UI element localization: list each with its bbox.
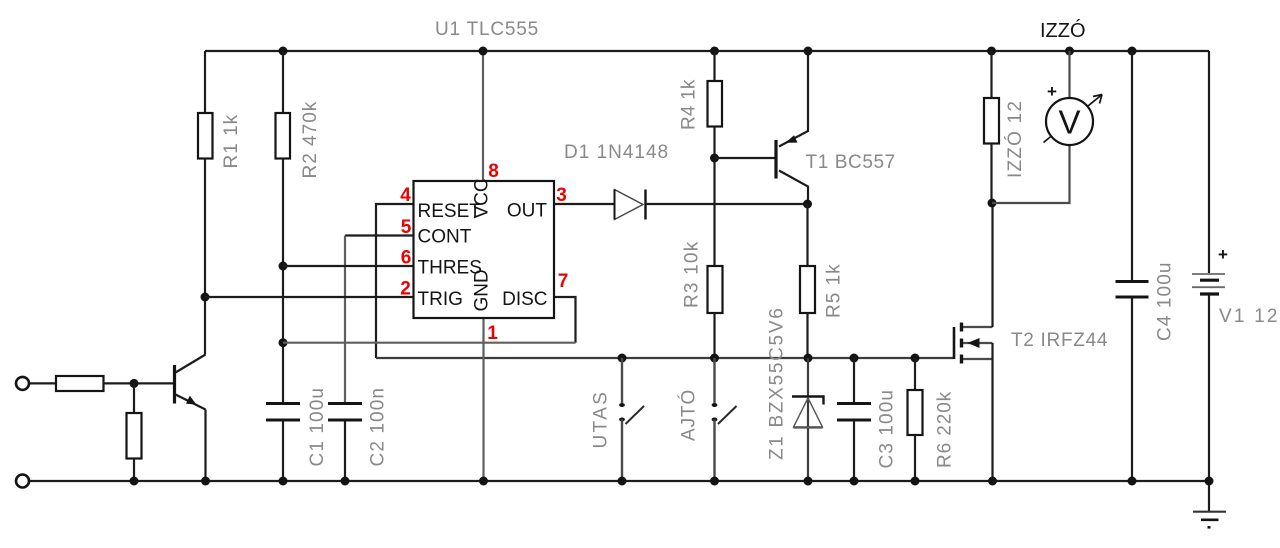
svg-text:VCC: VCC xyxy=(472,178,493,218)
wire resistor to base node xyxy=(104,382,174,384)
svg-text:3: 3 xyxy=(556,185,567,206)
wire battery top lead xyxy=(1208,51,1210,273)
transistor T1 collector diagonal xyxy=(779,171,808,205)
wire C2 bottom to ground rail xyxy=(344,422,346,482)
wire battery bottom lead xyxy=(1208,296,1210,512)
svg-text:C2 100n: C2 100n xyxy=(368,387,389,467)
battery V1 12 xyxy=(1192,245,1228,294)
node C3 at ground rail xyxy=(850,477,859,486)
node R2 top at rail xyxy=(279,47,288,56)
svg-text:CONT: CONT xyxy=(418,227,472,248)
node OUT junction xyxy=(803,200,812,209)
wire base node to T1 base xyxy=(715,157,775,159)
voltmeter V xyxy=(992,51,1102,203)
svg-text:U1 TLC555: U1 TLC555 xyxy=(435,19,539,40)
wire CONT pin5 to C2 xyxy=(345,234,414,236)
svg-text:2: 2 xyxy=(400,279,411,300)
svg-text:R3 10k: R3 10k xyxy=(682,241,703,308)
svg-text:4: 4 xyxy=(400,185,411,206)
resistor input pulldown (vertical) xyxy=(127,413,142,459)
transistor Q input NPN base bar xyxy=(173,365,176,404)
wire OUT pin3 to diode xyxy=(554,203,614,205)
capacitor C2 xyxy=(328,404,362,421)
wire lamp bottom xyxy=(990,144,992,204)
svg-text:Z1 BZX55C5V6: Z1 BZX55C5V6 xyxy=(767,307,788,460)
transistor Q emitter arrow xyxy=(186,396,197,405)
wire R2 bottom down to C1 xyxy=(282,159,284,404)
svg-text:UTAS: UTAS xyxy=(591,390,612,449)
svg-text:R2 470k: R2 470k xyxy=(300,101,321,179)
transistor T1 emitter arrow xyxy=(786,135,798,143)
svg-text:D1 1N4148: D1 1N4148 xyxy=(564,142,669,163)
wire C2 vertical (gray) xyxy=(344,236,346,404)
wire R5 top xyxy=(806,204,808,266)
svg-text:C1 100u: C1 100u xyxy=(307,387,328,467)
wire R3 bottom to switch line xyxy=(713,313,715,358)
node C4 top at rail xyxy=(1128,47,1137,56)
wire base node down to pulldown resistor xyxy=(133,383,135,413)
lamp IZZO 12 body xyxy=(984,98,999,144)
node zener top at switch line xyxy=(804,354,813,363)
node input terminal upper xyxy=(16,377,29,390)
svg-text:V: V xyxy=(1058,104,1080,141)
resistor R4 xyxy=(708,81,723,127)
wire R6 top xyxy=(914,358,916,390)
wire R4 top xyxy=(713,51,715,81)
svg-text:IZZÓ: IZZÓ xyxy=(1040,19,1086,42)
transistor T2 IRFZ44 xyxy=(954,323,993,364)
svg-text:OUT: OUT xyxy=(507,200,548,221)
wire T2 source vertical xyxy=(991,343,993,481)
svg-text:T1 BC557: T1 BC557 xyxy=(806,152,896,173)
resistor R1 xyxy=(198,113,213,159)
wire Q emitter to ground rail xyxy=(204,410,206,482)
wire switch line y358 xyxy=(376,357,954,359)
node zener at ground rail xyxy=(804,477,813,486)
wire C3 top xyxy=(853,358,855,402)
diode D1 1N4148 xyxy=(615,190,646,220)
node lamp top at rail xyxy=(987,47,996,56)
wire lamp top xyxy=(990,51,992,98)
wire THRES pin6 xyxy=(283,265,414,267)
wire VCC pin8 stub (gray) xyxy=(482,51,484,181)
transistor T1 emitter from rail xyxy=(779,51,808,147)
resistor R3 xyxy=(708,266,723,313)
wire pulldown resistor to ground rail xyxy=(133,459,135,482)
svg-text:1: 1 xyxy=(487,323,498,344)
svg-text:R6 220k: R6 220k xyxy=(935,391,956,468)
wire top supply rail xyxy=(205,50,1209,52)
node T1 emitter at rail xyxy=(804,47,813,56)
node TRIG junction on R1 line xyxy=(201,293,210,302)
node C2 at ground rail xyxy=(341,477,350,486)
wire R2 top xyxy=(282,51,284,113)
node base junction xyxy=(130,379,139,388)
svg-text:IZZÓ 12: IZZÓ 12 xyxy=(1004,100,1026,178)
capacitor C1 xyxy=(266,404,300,421)
node T1 base junction xyxy=(710,154,719,163)
resistor R2 xyxy=(276,113,291,159)
svg-text:R4 1k: R4 1k xyxy=(679,79,700,130)
transistor Q emitter diagonal xyxy=(176,395,206,410)
node C4 at ground rail xyxy=(1128,477,1137,486)
svg-text:T2 IRFZ44: T2 IRFZ44 xyxy=(1011,330,1108,351)
svg-text:C3 100u: C3 100u xyxy=(877,389,898,469)
wire zener vertical xyxy=(807,358,809,481)
zener Z1 BZX55C5V6 xyxy=(792,397,824,428)
resistor R6 xyxy=(908,390,923,435)
svg-text:8: 8 xyxy=(488,161,499,182)
node T2 source at ground rail xyxy=(988,477,997,486)
capacitor C3 xyxy=(837,404,871,421)
wire bottom ground rail xyxy=(30,480,1210,482)
wire TRIG pin2 xyxy=(205,296,414,298)
node AJTO at switch line xyxy=(710,354,719,363)
wire GND pin1 stub (gray) xyxy=(482,318,484,481)
node GND at ground rail xyxy=(479,477,488,486)
wire C3 bottom xyxy=(853,422,855,482)
wire RESET pin4 left and down xyxy=(376,204,414,358)
node C1 at ground rail xyxy=(279,477,288,486)
capacitor C4 xyxy=(1116,282,1149,298)
wire C1 bottom to ground rail xyxy=(282,422,284,482)
svg-text:TRIG: TRIG xyxy=(418,289,463,310)
wire R1 top from rail xyxy=(204,51,206,113)
node R4 top at rail xyxy=(710,47,719,56)
node UTAS at ground rail xyxy=(618,477,627,486)
wire T2 drain vertical xyxy=(991,203,993,327)
node UTAS at switch line xyxy=(618,354,627,363)
wire R5 bottom to switch line xyxy=(806,313,808,358)
node pulldown at ground rail xyxy=(130,477,139,486)
svg-text:V1 12: V1 12 xyxy=(1219,306,1280,327)
svg-text:C4 100u: C4 100u xyxy=(1155,261,1176,341)
wire R1 bottom to Q collector xyxy=(204,159,206,355)
resistor input series (horizontal) xyxy=(56,376,104,391)
svg-text:7: 7 xyxy=(558,271,569,292)
node input terminal lower xyxy=(16,475,29,488)
svg-text:6: 6 xyxy=(401,248,412,269)
node lamp bottom junction xyxy=(988,199,997,208)
wire diode cathode to T1 collector node xyxy=(646,203,808,205)
wire C4 bottom xyxy=(1131,299,1133,482)
node voltmeter top at rail xyxy=(1065,47,1074,56)
svg-text:+: + xyxy=(1218,245,1228,264)
op-amp U1 TLC555 body xyxy=(414,181,555,318)
node R6 at ground rail xyxy=(911,477,920,486)
wire input to series resistor xyxy=(30,382,57,384)
svg-text:DISC: DISC xyxy=(502,289,547,310)
ground xyxy=(1193,512,1226,528)
node C3 at switch line xyxy=(850,354,859,363)
svg-text:AJTÓ: AJTÓ xyxy=(678,389,700,441)
wire R4 bottom through base node to R3 xyxy=(713,127,715,267)
node VCC at rail xyxy=(479,47,488,56)
transistor T1 BC557 base bar xyxy=(774,140,777,179)
svg-text:R5 1k: R5 1k xyxy=(824,263,845,318)
switch UTAS xyxy=(619,358,644,481)
svg-text:R1 1k: R1 1k xyxy=(221,114,242,169)
wire DISC link (gray) xyxy=(283,342,576,344)
wire DISC pin7 right and down xyxy=(554,297,576,343)
node R6 at switch line xyxy=(911,354,920,363)
switch AJTO xyxy=(712,358,737,481)
wire C4 top xyxy=(1131,51,1133,280)
node DISC junction xyxy=(279,338,288,347)
wire R6 bottom xyxy=(914,435,916,481)
node Q emitter at ground rail xyxy=(201,477,210,486)
transistor Q collector diagonal xyxy=(176,355,206,373)
node THRES junction xyxy=(279,262,288,271)
node AJTO at ground rail xyxy=(710,477,719,486)
svg-text:5: 5 xyxy=(401,217,412,238)
svg-text:GND: GND xyxy=(472,269,493,311)
svg-text:+: + xyxy=(1047,82,1057,101)
resistor R5 xyxy=(800,266,815,313)
node battery at ground rail xyxy=(1205,477,1214,486)
